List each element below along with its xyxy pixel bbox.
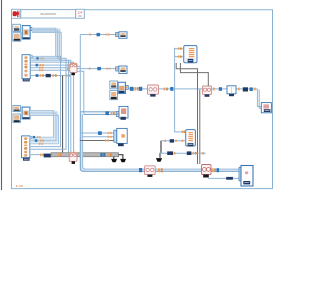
wire bundle U2 underlay <box>30 113 56 140</box>
wire relay G1 right to block F <box>77 67 116 69</box>
wire row1 turning down to block P <box>257 89 261 108</box>
component icon block B1 <box>13 33 21 42</box>
main wire row to the right of C3 <box>128 88 257 90</box>
splice diamond bottom wire <box>36 74 39 77</box>
svg-text:12F: 12F <box>77 10 82 14</box>
connector C4b label tab <box>205 94 210 96</box>
wire colour marks on harness band <box>107 153 109 156</box>
component icon block A2 <box>13 106 21 112</box>
wire colour marks bottom wire pre-splice <box>40 74 42 77</box>
wire bundle U1 line 2 <box>31 30 57 59</box>
connector D1 top bracket <box>30 55 32 58</box>
wire bundle U2 line 1 <box>30 111 54 138</box>
wire relay G1 lower right branch <box>77 71 84 114</box>
wire bundle U2 line 2 <box>30 113 56 141</box>
red logo <box>13 11 17 16</box>
pin colour marks R3 <box>182 131 184 133</box>
wire band to H pin2 <box>83 136 114 138</box>
splice block on D2 bottom wire <box>44 154 51 158</box>
wire colour marks to F <box>89 68 91 70</box>
ground drop wire 2 from harness <box>119 155 123 159</box>
connector D2 top bracket <box>30 136 32 138</box>
bus fill between lines <box>86 170 241 171</box>
block H label tab <box>118 143 124 146</box>
wire bundle U1 line 3 <box>31 31 59 60</box>
splice diamond row1 f <box>219 87 222 91</box>
component icon block B3 <box>110 91 118 100</box>
inline connector C4b <box>202 86 211 94</box>
connector L1 label tab <box>147 175 152 177</box>
wire colour marks on D1 pins 2-4 <box>39 64 44 71</box>
return wire under bus <box>208 177 241 179</box>
relay R3 pin stubs <box>181 132 186 141</box>
vertical wire V3 (through relay G1) <box>59 60 70 153</box>
wire colour marks row2 a <box>174 152 176 155</box>
wire colour marks to E <box>89 33 91 35</box>
wire colour marks D1 wire 1 <box>41 57 42 59</box>
inline connector C4c <box>227 86 236 94</box>
wire bundle U1 line 1 <box>31 28 55 56</box>
splice diamond on bus a <box>139 168 142 172</box>
relay block R2 <box>184 46 197 63</box>
connector bracket of block E <box>116 32 119 36</box>
relay R2 left pins <box>175 48 184 58</box>
wire colour marks D2 bottom <box>40 154 42 157</box>
page border frame <box>12 10 273 189</box>
connector bracket of block M <box>239 167 242 181</box>
splice block on bottom wire <box>46 74 51 77</box>
wire colour marks D2 wire 2 <box>40 140 42 142</box>
wire row y153 <box>159 152 206 154</box>
splice diamond on H pin1 wire <box>98 131 102 135</box>
wire colour marks H pin2 <box>108 136 110 138</box>
connector C4a label tab <box>150 94 155 96</box>
wire bundle U2 line 3 <box>30 116 59 144</box>
wire colour marks on branch to G2 <box>111 112 113 115</box>
wire colour marks row2 b <box>193 152 195 155</box>
connector block C3 <box>118 82 126 93</box>
wire D1 pin4 to relay G1 <box>31 69 70 71</box>
main vertical double band line outer <box>80 112 241 172</box>
block P <box>261 103 271 113</box>
wire D1 pin3 to relay G1 <box>31 67 70 69</box>
relay G1 ground tab <box>72 73 75 76</box>
wire colour marks H pin3 <box>105 140 107 142</box>
long wire R2 bracket down to R3 <box>175 58 181 132</box>
grey wire 2 from R2 to connector C4b <box>180 63 208 86</box>
vertical wire V2b <box>59 60 68 152</box>
relay G1 <box>70 63 77 73</box>
grey wire to H pin3 <box>80 140 114 142</box>
component icon block A3 <box>110 81 118 89</box>
splice diamond row1 h <box>250 87 253 91</box>
splice diamond on wire to E <box>97 33 101 36</box>
connector bracket of block H <box>114 130 117 142</box>
wire colour marks row1 i <box>254 88 256 91</box>
main vertical double band line inner <box>83 114 241 169</box>
ground drop wire 1 from harness <box>113 157 115 159</box>
wire colour marks bus b <box>212 168 214 172</box>
block H <box>117 128 127 143</box>
wire colour marks D2 wire 1 <box>37 136 39 138</box>
splice block row1 <box>243 87 248 91</box>
wire D2 bottom to grey band <box>31 154 51 156</box>
component icon block B2 <box>13 114 21 123</box>
splice block row2 a <box>167 151 173 155</box>
icon block E <box>119 32 127 39</box>
wire to icon block E <box>80 34 116 36</box>
wire band to H pin1 <box>80 132 114 134</box>
wire colour marks after splice <box>58 153 60 156</box>
splice diamond on wire to F <box>97 67 101 70</box>
icon block G2 <box>119 106 128 119</box>
wire colour marks row1 g <box>238 88 240 91</box>
connector C1 tab <box>30 28 32 31</box>
splice diamond on branch to G2 <box>105 111 109 115</box>
connector L2 label tab <box>203 175 209 178</box>
icon block F <box>119 66 127 73</box>
wire colour marks H pin1 <box>108 132 110 134</box>
relay block R3 <box>186 130 196 147</box>
splice diamond on bus b <box>217 168 220 172</box>
wire relay G1 to blocks E/F junction vertical <box>79 35 81 69</box>
vertical wire V4 (through relay G1) <box>61 62 73 153</box>
splice diamond on D2 wire 1 <box>33 136 35 138</box>
connector bracket of block G2 <box>116 112 119 117</box>
splice diamond row1 b <box>139 87 142 91</box>
ground symbol G-c <box>156 158 162 162</box>
wire bundle U1 line 4 <box>31 33 61 63</box>
pin colour marks R2 <box>178 47 180 49</box>
splice diamond on D1 pin2 wire <box>36 64 39 67</box>
svg-text:E 100: E 100 <box>16 184 24 188</box>
relay K <box>69 152 77 162</box>
double branch to block G2 <box>80 112 116 115</box>
shielded grey harness band <box>51 153 119 157</box>
wire bundle U1 underlay <box>31 30 58 59</box>
splice diamond on D1 wire 1 <box>36 57 38 59</box>
ground symbol G-a <box>111 159 117 162</box>
grey wire 1 from R2 <box>176 63 197 164</box>
relay K ground tab <box>72 161 75 164</box>
wire colour marks D2 wire 3 <box>39 143 41 145</box>
connector block C1 <box>22 26 30 40</box>
wire colour marks row1 c <box>164 88 166 91</box>
ground symbol G-b <box>120 159 126 162</box>
splice block row2 b <box>187 151 192 155</box>
grey wire 3 row junction down to L2 <box>199 90 201 165</box>
connector C3 bracket <box>126 85 129 89</box>
connector D1 label tab <box>23 79 30 82</box>
main vertical double band underlay <box>82 114 242 171</box>
component icon block A1 <box>13 24 21 31</box>
wire colour marks row1 e <box>213 88 215 91</box>
connector block D2 <box>22 136 30 158</box>
relay G1 left pin marks <box>67 64 69 66</box>
wire colour marks row1 a <box>135 87 137 91</box>
wire D1 pin2 to relay G1 <box>31 64 70 66</box>
title logo cell <box>12 9 21 18</box>
connector block D1 <box>22 55 30 79</box>
long vertical wire from E/F junction down to band tee <box>79 69 81 112</box>
wire colour marks bottom wire <box>52 74 54 77</box>
connector bracket of block F <box>116 67 119 71</box>
relay R3 label tab <box>188 143 194 146</box>
inline connector C4a <box>148 85 159 94</box>
block M <box>241 166 253 187</box>
wire colour marks R3 pin2 wire <box>164 140 166 142</box>
inline connector L1 <box>145 166 156 175</box>
inline connector L2 <box>202 165 212 175</box>
relay R2 label tab <box>188 59 194 63</box>
vertical wire V2 <box>31 58 66 149</box>
splice diamonds on harness band <box>100 153 102 157</box>
splice block on return wire <box>226 177 233 180</box>
vertical wire V1 <box>31 56 61 146</box>
wire colour marks bus a <box>158 168 160 172</box>
dark wire descending from bottom wire <box>62 76 64 154</box>
title page-number cell <box>76 9 85 18</box>
splice block R3 pin2 wire <box>170 139 174 142</box>
scan fold line left edge <box>1 0 3 190</box>
splice diamond row1 a <box>130 87 134 91</box>
connector D2 label tab <box>23 158 30 161</box>
splice diamond row1 d <box>170 87 173 91</box>
splice diamond on D2 wire 2 <box>35 139 38 142</box>
svg-text:VALIDATION: VALIDATION <box>40 12 56 16</box>
black wire down to ground G-c <box>160 141 161 158</box>
wire R3 pin2 to ground corner <box>161 140 181 142</box>
connector C4c label tab <box>229 94 234 96</box>
wire D1 bottom pin <box>31 75 70 77</box>
title text cell <box>21 10 76 18</box>
connector block C2 <box>22 107 30 119</box>
